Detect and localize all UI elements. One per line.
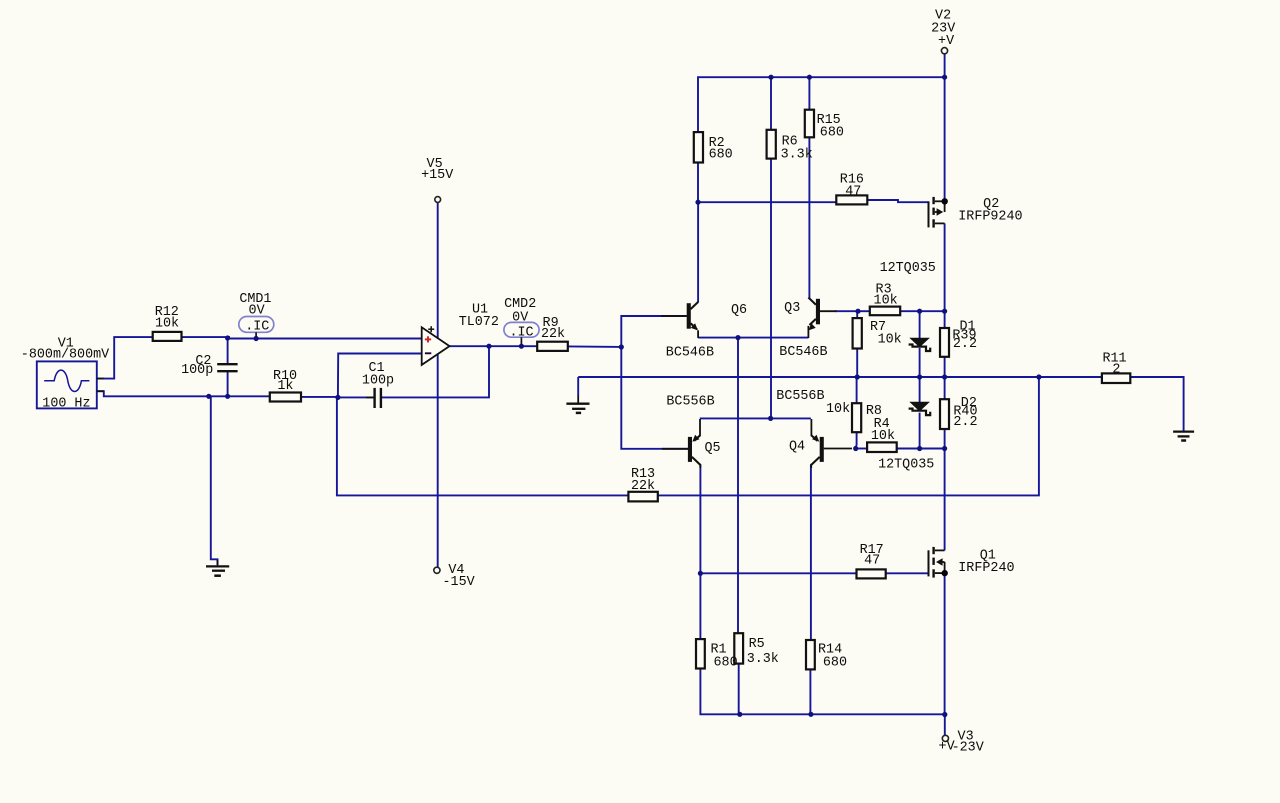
wire R11 to right ground <box>1130 377 1183 431</box>
resistor R7 <box>853 318 862 348</box>
resistor R12 <box>153 332 182 341</box>
svg-text:2: 2 <box>1112 362 1120 377</box>
wire lower node to Q1 drain <box>944 449 946 551</box>
resistor R17 <box>857 569 886 578</box>
wire Q1 source to bottom rail <box>944 573 946 714</box>
svg-text:22k: 22k <box>541 327 565 342</box>
wire R3 right to rail <box>900 310 944 312</box>
diode D2 <box>909 402 931 415</box>
ground near op-amp <box>566 396 589 413</box>
wire D1 cathode <box>919 348 921 377</box>
wire D2 anode <box>919 377 921 402</box>
node C2 bottom junction <box>225 394 230 399</box>
resistor R4 <box>867 442 897 452</box>
svg-text:22k: 22k <box>631 479 655 494</box>
wire base rail Q6 Q5 <box>621 316 688 449</box>
wire emitter tie down to R5 <box>737 338 739 633</box>
wire gate node to R16 <box>698 201 836 203</box>
svg-text:+V: +V <box>938 34 954 49</box>
node B R10 C1 feedback junction <box>335 395 340 400</box>
wire R4 left <box>856 448 867 450</box>
node CMD2 pin junction <box>519 344 524 349</box>
resistor R8 <box>852 403 861 432</box>
wire ground tap below V1 <box>211 396 218 565</box>
wire D2 cathode <box>919 413 921 449</box>
resistor R13 <box>628 492 657 502</box>
wire op-amp negative supply to V4 <box>437 354 439 568</box>
resistor R11 <box>1102 373 1130 383</box>
node D1 D2 output junction <box>917 374 922 379</box>
svg-text:+15V: +15V <box>421 168 453 183</box>
wire feedback node B to R13 <box>337 397 628 495</box>
resistor R16 <box>836 195 867 204</box>
node ground tap junction <box>206 394 211 399</box>
terminal V3 <box>942 735 948 741</box>
svg-text:10k: 10k <box>871 429 895 444</box>
node Q5 Q4 emitter R6 junction <box>768 416 773 421</box>
mosfet Q2 <box>929 197 948 228</box>
wire R9 to driver base rail <box>568 345 621 348</box>
svg-text:100 Hz: 100 Hz <box>42 397 90 412</box>
wire V1 minus terminal to R10 <box>97 391 270 396</box>
wire R15 to Q3 collector <box>808 137 810 297</box>
svg-text:1k: 1k <box>277 379 293 394</box>
wire input net to op-amp plus input <box>228 338 422 340</box>
node R9 base rail junction <box>619 344 624 349</box>
svg-text:10k: 10k <box>826 402 850 417</box>
node op-amp output junction <box>486 344 491 349</box>
wire C1 right to op-amp output <box>381 346 489 397</box>
resistor R40 <box>940 399 949 429</box>
node Q6 Q3 emitter junction <box>735 335 740 340</box>
wire Q5 collector tap to R17 <box>700 572 856 574</box>
wire ground stub near op-amp <box>577 377 579 396</box>
wire R3 node stub <box>858 310 870 312</box>
wire D1 anode <box>919 311 921 338</box>
wire Q6 Q3 emitter tie <box>698 337 808 339</box>
svg-text:Q3: Q3 <box>784 301 800 316</box>
wire R6 top <box>770 77 772 130</box>
wire gate node down to Q6 collector <box>697 202 699 302</box>
svg-text:BC546B: BC546B <box>666 346 714 361</box>
wire R16 to Q2 gate <box>868 200 929 202</box>
wire R7 bottom <box>856 349 858 377</box>
svg-text:BC556B: BC556B <box>776 389 824 404</box>
svg-text:10k: 10k <box>155 316 179 331</box>
command CMD1 <box>239 317 274 337</box>
svg-text:2.2: 2.2 <box>953 415 977 430</box>
wire Q4 collector column to R14 <box>810 464 812 640</box>
capacitor C2 <box>217 364 237 371</box>
svg-text:IRFP240: IRFP240 <box>958 561 1014 576</box>
wire V2 stub <box>944 54 946 77</box>
transistor Q4 <box>811 419 852 468</box>
voltage source V1 <box>37 361 104 408</box>
wire R8 top <box>856 377 858 403</box>
resistor R39 <box>940 328 949 357</box>
wire output node to R40 <box>944 377 946 399</box>
wire Q5 collector column to R1 <box>699 464 701 639</box>
svg-text:680: 680 <box>714 655 738 670</box>
node R2 R16 gate junction <box>695 200 700 205</box>
wire V1 plus terminal to R12 <box>97 337 153 379</box>
wire top supply rail <box>698 77 945 132</box>
resistor R5 <box>734 633 743 663</box>
wire Q5 Q4 emitter tie <box>700 417 811 419</box>
capacitor C1 <box>366 388 381 408</box>
wire op-amp output to R9 <box>449 345 537 347</box>
svg-text:10k: 10k <box>878 332 902 347</box>
svg-text:680: 680 <box>820 126 844 141</box>
node V2 rail junction <box>942 75 947 80</box>
node bottom rail R5 junction <box>737 712 742 717</box>
resistor R1 <box>696 639 705 668</box>
node bottom rail R14 junction <box>808 712 813 717</box>
wire R1 bottom and bottom rail <box>700 669 944 715</box>
wire rail to R39 <box>944 311 946 328</box>
svg-text:IRFP9240: IRFP9240 <box>958 210 1022 225</box>
svg-text:10k: 10k <box>874 294 898 309</box>
wire op-amp positive supply from V5 <box>437 203 439 339</box>
resistor R15 <box>805 110 814 138</box>
wire node B up to op-amp minus input <box>338 354 422 398</box>
wire R4 right to rail <box>897 448 945 450</box>
ground below V1 <box>206 560 229 576</box>
node top rail R6 junction <box>768 75 773 80</box>
wire R12 to node CMD1 input net <box>182 336 230 338</box>
resistor R3 <box>870 307 900 316</box>
svg-text:R5: R5 <box>749 637 765 652</box>
wire R39 to output node <box>944 357 946 377</box>
node R7 R8 output junction <box>855 374 860 379</box>
wire C2 bottom <box>227 371 229 396</box>
svg-text:-23V: -23V <box>952 740 984 755</box>
transistor Q5 <box>662 419 700 468</box>
transistor Q6 <box>661 302 698 338</box>
node Q5 collector R17 junction <box>698 571 703 576</box>
wire R7 top <box>856 311 858 318</box>
node Q3 base R3 R7 junction <box>855 309 860 314</box>
terminal V2 <box>941 48 947 54</box>
wire R8 bottom <box>855 432 858 448</box>
svg-text:0V: 0V <box>249 303 265 318</box>
resistor R6 <box>767 130 776 159</box>
node R12 C2 junction <box>225 335 230 340</box>
svg-text:3.3k: 3.3k <box>747 652 779 667</box>
svg-text:0V: 0V <box>512 310 528 325</box>
svg-text:100p: 100p <box>181 363 213 378</box>
wire R10 to node B <box>301 396 338 398</box>
svg-text:Q4: Q4 <box>789 440 805 455</box>
node rail R40 R4 junction <box>942 446 947 451</box>
svg-text:Q5: Q5 <box>704 441 720 456</box>
node feedback output tap junction <box>1036 374 1041 379</box>
op-amp U1 <box>422 326 450 365</box>
svg-text:-15V: -15V <box>443 575 475 590</box>
node R8 Q4 base R4 junction <box>853 446 858 451</box>
diode D1 <box>909 338 931 351</box>
svg-text:12TQ035: 12TQ035 <box>880 261 936 276</box>
command CMD2 <box>504 322 539 344</box>
svg-text:680: 680 <box>709 147 733 162</box>
svg-text:47: 47 <box>845 185 861 200</box>
wire R13 to output tap <box>658 377 1039 495</box>
wire R5 bottom <box>738 664 740 715</box>
svg-text:47: 47 <box>864 553 880 568</box>
wire R40 to lower node <box>944 429 946 449</box>
svg-text:3.3k: 3.3k <box>781 148 813 163</box>
svg-text:TL072: TL072 <box>459 315 499 330</box>
svg-text:100p: 100p <box>362 374 394 389</box>
svg-text:BC556B: BC556B <box>666 394 714 409</box>
wire C2 top <box>227 338 229 364</box>
wire Q3 base to R3 node <box>835 310 858 312</box>
resistor R14 <box>806 640 815 669</box>
node CMD1 pin junction <box>254 336 259 341</box>
svg-text:.IC: .IC <box>245 320 269 335</box>
ground right of R11 <box>1173 432 1194 441</box>
node D1 anode junction <box>917 309 922 314</box>
wire R15 top <box>808 77 810 109</box>
resistor R9 <box>537 342 568 351</box>
wire R14 bottom <box>809 670 811 715</box>
svg-text:2.2: 2.2 <box>953 337 977 352</box>
wire output node line <box>578 376 1102 378</box>
node rail R3 R39 junction <box>942 309 947 314</box>
svg-text:.IC: .IC <box>509 325 533 340</box>
node D2 R4 junction <box>917 446 922 451</box>
wire R2 bottom to gate node <box>697 163 699 202</box>
wire right rail V2 to Q2 <box>944 77 946 199</box>
node rail R39 R40 output junction <box>942 374 947 379</box>
resistor R2 <box>694 132 703 162</box>
svg-text:680: 680 <box>823 655 847 670</box>
wire R17 to Q1 gate <box>886 572 928 574</box>
wire R6 bottom long <box>770 159 772 419</box>
mosfet Q1 <box>929 547 948 578</box>
terminal V5 <box>435 197 441 203</box>
node top rail R15 junction <box>807 75 812 80</box>
svg-text:Q6: Q6 <box>731 303 747 318</box>
resistor R10 <box>270 393 301 402</box>
terminal V4 <box>434 567 440 573</box>
svg-text:12TQ035: 12TQ035 <box>878 458 934 473</box>
svg-text:BC546B: BC546B <box>779 345 827 360</box>
node bottom rail V3 junction <box>942 712 947 717</box>
wire right rail Q2 to R3 node <box>944 223 946 311</box>
wire node B to C1 left <box>338 396 374 398</box>
transistor Q3 <box>808 298 836 339</box>
wire bottom rail to V3 <box>944 714 946 735</box>
svg-text:-800m/800mV: -800m/800mV <box>21 347 109 362</box>
